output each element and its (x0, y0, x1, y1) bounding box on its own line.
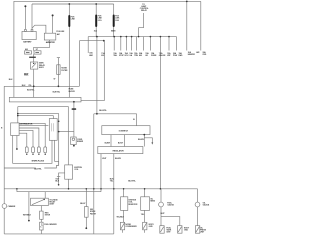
wire W2 horizontal to coil (18, 107, 69, 165)
svg-text:GAUGE: GAUGE (203, 204, 210, 207)
arrowhead (151, 142, 153, 144)
svg-text:RESISTOR: RESISTOR (128, 204, 138, 206)
svg-text:FUEL SENDER: FUEL SENDER (44, 224, 57, 226)
svg-text:ENSER: ENSER (77, 141, 84, 143)
ground g3 (160, 226, 164, 234)
svg-text:DOME: DOME (151, 55, 157, 57)
wire L1 left tail down to fuse block (13, 1, 15, 97)
wire distributor bottom stub (16, 136, 18, 150)
svg-text:BLK/YEL: BLK/YEL (99, 110, 107, 112)
wire fuse drop c (125, 37, 127, 51)
wire ground bus (4, 233, 114, 235)
wire fuse drop b (120, 37, 122, 51)
wire connector to relay (33, 54, 35, 62)
wire fuse drop j corner (176, 37, 178, 51)
wire bus B (79, 40, 104, 42)
svg-text:FILTER: FILTER (61, 70, 68, 72)
regulator box (98, 147, 143, 154)
svg-text:GAUGE: GAUGE (159, 54, 166, 57)
wire noise filter chain (85, 189, 87, 207)
fusible link bars (68, 15, 114, 110)
svg-text:BLOCK: BLOCK (69, 91, 76, 93)
wire ign switch left drop down to bottom (93, 114, 95, 234)
wire box A to resistor chain (40, 206, 42, 212)
svg-text:FILTER: FILTER (90, 213, 97, 215)
ignition switch box (102, 126, 150, 135)
battery terminal squares (25, 30, 27, 32)
wire oil gauge bottom (197, 207, 199, 226)
wire distributor plug line 1 (19, 123, 45, 147)
wire battery to ammeter box jog (32, 25, 46, 33)
svg-text:POW: POW (173, 55, 178, 57)
svg-text:IG SWITCH: IG SWITCH (119, 131, 129, 133)
spark plug ovals (25, 147, 28, 153)
svg-text:CHARGE: CHARGE (8, 205, 16, 208)
sender box2 (141, 197, 150, 211)
ground g1 (120, 222, 124, 230)
wire igniter feed 2 (18, 116, 54, 119)
wire bus1 corner to oil gauge (197, 189, 199, 202)
svg-text:REGULATOR: REGULATOR (113, 150, 125, 153)
bottom resistor (40, 211, 44, 219)
wire distributor plug line 2 (19, 128, 39, 147)
wire fuse drop h long right side (159, 37, 161, 189)
charge circle (2, 204, 7, 209)
wire fuse block bottom to condenser chain (73, 102, 75, 137)
wire W horizontal to left border (4, 85, 79, 87)
svg-text:ASSY: ASSY (39, 66, 45, 69)
wire box2 to ground g2 (144, 210, 146, 222)
fuel gauge circle (159, 202, 164, 207)
wire relay drop from ammeter (34, 40, 50, 51)
wire connector tick on x58 (57, 173, 65, 185)
svg-text:BLK/W: BLK/W (138, 139, 144, 141)
svg-text:YEL/BLK: YEL/BLK (116, 216, 124, 218)
svg-text:MAIN: MAIN (111, 30, 116, 33)
wire bottom bus2 (17, 189, 101, 192)
svg-text:BLK/YEL: BLK/YEL (128, 180, 136, 182)
wire bottom bus1 (4, 188, 197, 190)
wire g1 stub (122, 230, 124, 233)
condenser box (71, 137, 77, 145)
fuse block long box (9, 97, 81, 102)
svg-text:BATTERY: BATTERY (23, 41, 32, 44)
ignition main relay box (30, 62, 37, 69)
wire top bus L1 (14, 0, 201, 2)
ground g4 (178, 226, 182, 234)
svg-text:ASSY: ASSY (49, 203, 55, 206)
wire box A feed (44, 192, 46, 199)
wire fuel gauge bottom (160, 207, 162, 226)
wire regulator drop 1 to ground bus (100, 154, 102, 192)
svg-text:WHT/BLK: WHT/BLK (23, 215, 32, 217)
wire ammeter box stub terminal (52, 15, 54, 33)
wire igniter feed 1 (18, 114, 59, 166)
svg-text:ISTOR: ISTOR (45, 215, 51, 217)
wire igniter right to condenser (59, 131, 74, 133)
wire coil resistor box1 feed (123, 189, 125, 197)
ground g2 (143, 222, 147, 230)
wire ign switch drop 1 (110, 135, 112, 147)
wire coil bottom stub (68, 179, 70, 189)
svg-text:BLK/Y: BLK/Y (80, 203, 86, 205)
wire fuse drop a (113, 37, 115, 51)
wire bus A drop IG long (96, 37, 98, 114)
svg-text:AMMETER: AMMETER (46, 41, 56, 44)
svg-text:RELAY: RELAY (141, 9, 148, 12)
relay dark label (29, 57, 36, 58)
wire L2 left tail to battery + terminal (31, 4, 33, 30)
svg-text:FUS LINK: FUS LINK (56, 31, 65, 33)
wire fusible link 2 drop (95, 4, 97, 37)
connector box pair (25, 51, 32, 54)
wire battery feed bus L2 (32, 3, 114, 5)
wire bus A left tail ST stub (87, 37, 89, 53)
distributor box (11, 123, 19, 136)
svg-text:BLK/W: BLK/W (115, 158, 121, 160)
wire bus A (88, 36, 176, 38)
dark dash connector below fuse block (72, 108, 77, 109)
wire battery stub terminal (24, 6, 26, 29)
wire fuse drop f lamp (143, 37, 145, 51)
wire distributor plug line 3 (19, 130, 33, 147)
wire fuel gauge drop (160, 189, 162, 202)
wire resistor top tick (57, 57, 60, 59)
resistor box (57, 65, 60, 75)
svg-text:SPARK PLUGS: SPARK PLUGS (32, 159, 45, 162)
wire fuse drop d (131, 37, 133, 51)
wire resistor column (57, 58, 59, 87)
wire bus B left riser down (78, 41, 80, 87)
wire distributor bottom left loop (13, 136, 52, 164)
wire fusible link 1 drop (68, 4, 70, 97)
wire IG corner into switch box (136, 114, 138, 126)
coil resistor box1 (121, 197, 128, 211)
wire relay down to fuse block (33, 69, 35, 97)
svg-text:HEATER: HEATER (188, 53, 196, 56)
wire branch to arrow (144, 138, 152, 143)
svg-text:BLK/YEL: BLK/YEL (27, 90, 35, 92)
wire g2 stub (144, 230, 146, 233)
svg-text:SEND: SEND (150, 201, 156, 203)
wire box A bottom WHT/BLK (28, 192, 30, 221)
wire distributor to igniter (19, 125, 48, 127)
wire L1 right corner tail (200, 1, 202, 50)
bottom sender box (40, 222, 44, 230)
wire igniter bottom 2 (55, 140, 59, 165)
wire regulator drop 2 to ground bus (113, 154, 115, 234)
wire box1 to ground g1 (123, 210, 125, 222)
ground g5 (195, 226, 199, 234)
svg-text:BLK/YEL: BLK/YEL (34, 169, 42, 171)
svg-text:0.5G: 0.5G (98, 20, 102, 22)
wire fusible link 3 drop (113, 4, 115, 37)
wire noise filter bottom (85, 217, 87, 228)
wire left border down (3, 86, 5, 234)
ignition coil box (65, 165, 73, 179)
wire fuse drop i (168, 37, 170, 51)
svg-text:BLK/Y: BLK/Y (118, 142, 124, 144)
svg-text:BLK/YEL: BLK/YEL (53, 92, 61, 94)
battery box (2, 30, 200, 234)
svg-text:0.5G: 0.5G (115, 20, 119, 22)
ammeter box (44, 33, 56, 40)
wire lamp relay feed (139, 13, 144, 37)
wire fuse drop g (149, 37, 151, 51)
wire ignition switch feed horizontal (94, 113, 137, 115)
svg-text:DISTRIBUTOR: DISTRIBUTOR (20, 123, 33, 125)
wire resistor to sender (40, 219, 42, 222)
wire box2 feed (144, 189, 146, 197)
wire branch y216.6 (161, 217, 180, 226)
wire bus B right end to fuse block (81, 41, 104, 101)
wire outer bottom BLK/YEL (4, 166, 59, 169)
wire sender to ground bus (40, 230, 42, 234)
oil gauge circle (195, 202, 200, 207)
noise filter resistor (85, 207, 89, 218)
svg-text:CONDENSER: CONDENSER (125, 226, 137, 228)
wire distributor plug line 4 (19, 133, 27, 147)
svg-text:AM1: AM1 (89, 54, 93, 57)
bottom: box A with switch diagonal (31, 198, 49, 205)
wire ign switch drop 2 (124, 135, 126, 147)
wire L1 right tail 1 (186, 1, 188, 50)
svg-text:GAUGE: GAUGE (167, 204, 174, 207)
wire fuse drop e (135, 37, 137, 51)
igniter box (49, 119, 57, 141)
svg-text:BLK/R: BLK/R (105, 142, 111, 144)
wire ign switch drop 3 (143, 135, 145, 147)
